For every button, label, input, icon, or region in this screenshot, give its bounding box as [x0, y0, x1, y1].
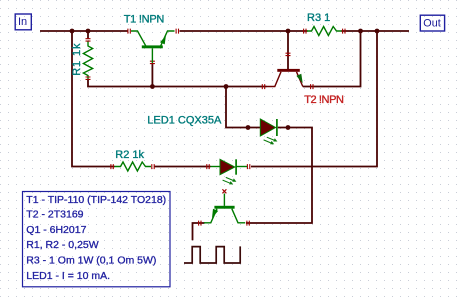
- svg-text:R1 1k: R1 1k: [71, 43, 83, 76]
- svg-text:In: In: [18, 16, 27, 28]
- svg-text:R3 1: R3 1: [307, 12, 330, 24]
- svg-text:T2 !NPN: T2 !NPN: [304, 94, 344, 106]
- svg-text:LED1 CQX35A: LED1 CQX35A: [147, 114, 222, 126]
- svg-text:T2 - 2T3169: T2 - 2T3169: [26, 208, 83, 220]
- svg-text:R1, R2 - 0,25W: R1, R2 - 0,25W: [26, 239, 98, 251]
- svg-text:LED1 - I = 10 mA.: LED1 - I = 10 mA.: [26, 270, 110, 282]
- svg-text:T1 !NPN: T1 !NPN: [124, 14, 165, 26]
- svg-text:T1 - TIP-110 (TIP-142 TO218): T1 - TIP-110 (TIP-142 TO218): [26, 194, 166, 206]
- svg-text:R2 1k: R2 1k: [115, 149, 144, 161]
- svg-text:Q1 - 6H2017: Q1 - 6H2017: [26, 224, 86, 236]
- svg-text:R3 - 1 Om 1W (0,1 Om 5W): R3 - 1 Om 1W (0,1 Om 5W): [26, 255, 156, 267]
- svg-text:Out: Out: [423, 17, 440, 29]
